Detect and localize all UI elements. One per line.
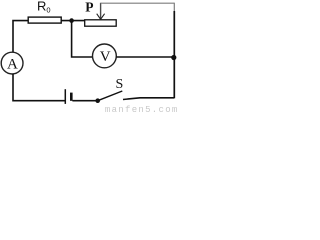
resistor R0 bbox=[28, 17, 61, 23]
svg-text:manfen5.com: manfen5.com bbox=[105, 105, 178, 114]
battery short thick plate bbox=[70, 93, 73, 101]
wire: bottom left segment through battery bbox=[72, 100, 97, 102]
node junction dot under R0 bbox=[69, 18, 74, 23]
svg-text:R: R bbox=[37, 0, 46, 14]
junction dot on right rail bbox=[171, 55, 176, 60]
wire: voltmeter to right rail bbox=[116, 56, 174, 58]
svg-text:S: S bbox=[116, 77, 124, 92]
svg-text:P: P bbox=[85, 0, 93, 14]
switch S blade (diagonal) bbox=[98, 91, 123, 101]
svg-text:0: 0 bbox=[46, 6, 50, 15]
wire: resistor to potentiometer bbox=[61, 20, 84, 22]
wiper arrow of potentiometer bbox=[100, 3, 102, 19]
voltmeter V bbox=[93, 44, 117, 68]
svg-text:V: V bbox=[100, 49, 111, 65]
svg-text:A: A bbox=[7, 57, 18, 73]
wire: wiper to right rail (gray, thin) bbox=[101, 2, 175, 4]
ammeter A bbox=[1, 52, 23, 74]
switch pivot dot bbox=[95, 98, 100, 103]
wire: right rail bbox=[173, 3, 175, 12]
wire: left rail top + top wire to resistor bbox=[13, 21, 28, 53]
wire: node down and right to voltmeter bbox=[72, 21, 93, 57]
potentiometer P body bbox=[85, 20, 117, 26]
battery long plate bbox=[64, 89, 66, 104]
wire: bottom right segment bbox=[123, 98, 174, 100]
